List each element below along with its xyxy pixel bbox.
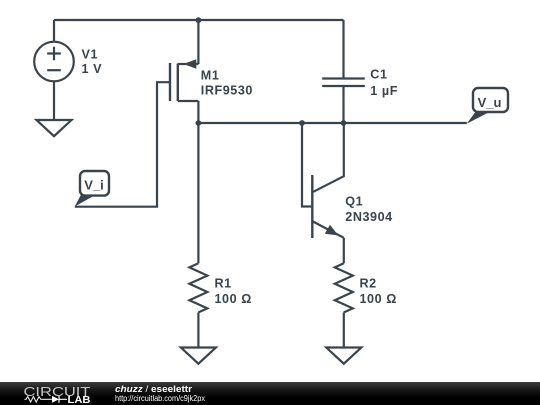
svg-text:R1: R1 [215,277,232,291]
wire V1 bottom lead [53,81,55,120]
node junction M1 source / R1 [196,120,202,126]
svg-text:http://circuitlab.com/c9jk2px: http://circuitlab.com/c9jk2px [115,393,206,403]
wire Q1 base lead [302,123,312,207]
ground (R1) [181,348,216,364]
svg-text:LAB: LAB [68,395,91,405]
svg-text:100 Ω: 100 Ω [215,292,252,306]
net flag V_i [75,171,109,207]
capacitor C1 [322,79,365,124]
wire R1 to ground [197,312,199,347]
label R1 [215,277,252,307]
ground (V1) [37,120,72,136]
svg-text:C1: C1 [370,68,387,82]
transistor Q1 2N3904 [312,123,344,238]
net flag V_u [467,88,508,124]
svg-text:100 Ω: 100 Ω [360,292,397,306]
ground (R2) [326,348,361,364]
svg-text:Q1: Q1 [345,195,363,209]
node junction Q1 base wire [299,120,305,126]
node junction C1 / Q1 collector [341,120,347,126]
wire bottom rail [198,122,466,124]
label Q1 [345,195,392,224]
svg-text:2N3904: 2N3904 [345,210,392,224]
mosfet M1 IRF9530 [170,59,198,101]
svg-text:IRF9530: IRF9530 [201,84,253,98]
wire M1 source to R1 [197,123,199,263]
wire R2 to ground [343,312,345,347]
svg-text:1 V: 1 V [82,62,103,76]
node junction at top rail [196,17,202,23]
svg-text:M1: M1 [201,69,220,83]
wire gate from V_i [75,82,170,207]
wire M1 drain to rail [197,20,199,64]
footer bar [0,382,540,405]
resistor R1 [189,263,207,312]
label C1 [370,68,398,98]
wire top rail [54,19,344,21]
resistor R2 [335,263,353,312]
svg-text:V1: V1 [82,48,99,62]
logo diode [52,396,59,403]
svg-text:V_i: V_i [84,178,104,193]
svg-text:V_u: V_u [478,95,502,110]
svg-text:R2: R2 [360,277,377,291]
wire Q1 emitter to R2 [343,238,345,263]
voltage source V1 [34,42,74,82]
wire M1 source down [197,101,199,123]
wire rail to C1 top [342,20,344,79]
label M1 [201,69,253,98]
label V1 value [82,48,103,77]
svg-text:1 µF: 1 µF [370,84,398,98]
wire V1 top lead [53,20,55,42]
logo resistor squiggle [25,397,52,402]
label R2 [360,277,397,307]
